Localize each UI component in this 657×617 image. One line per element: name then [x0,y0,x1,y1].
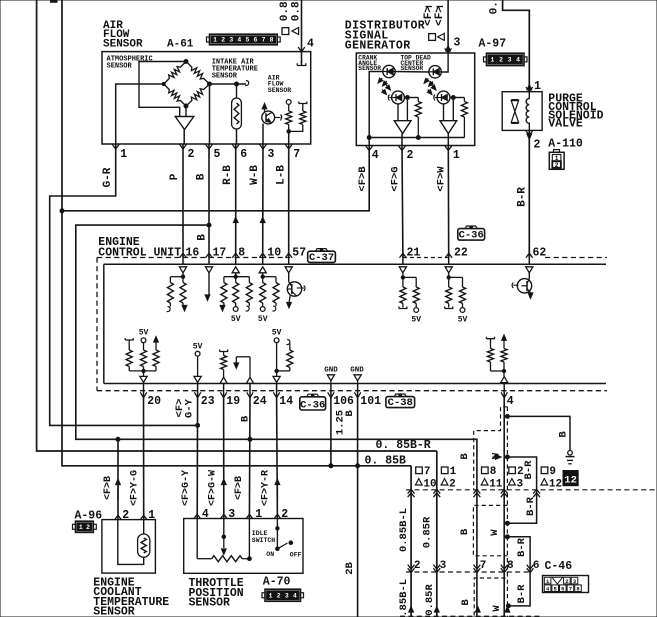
connector badge C-38 [386,397,415,408]
row 2 connector dashed line [406,571,532,573]
svg-text:<F>B: <F>B [103,476,114,500]
pin mark A-61 pin 2 [180,144,187,149]
wire crank amp output pin 2 [401,134,403,146]
wire bridge top to amplifier input [139,62,186,117]
connector A-110 [549,152,564,169]
pin mark ECU pin 16 [180,253,187,258]
svg-text:6: 6 [240,148,247,161]
svg-text:22: 22 [454,247,468,260]
svg-text:SENSOR: SENSOR [107,63,133,71]
node TDC output [451,96,455,100]
engine control unit solid boundary [104,263,606,265]
wire TPS pin 1 [248,519,250,559]
svg-text:4: 4 [307,38,314,51]
wire B branch to body ground [507,416,570,450]
svg-text:3: 3 [440,560,447,572]
engine control unit dashed boundary [97,257,290,259]
wire W-B pin3 to ECU 10 [262,144,264,258]
resistor network pin 4 [487,337,495,339]
svg-text:5V: 5V [458,316,468,325]
svg-text:A-70: A-70 [263,576,291,589]
wire left bus 2 (0.85B ground bus) [62,0,411,466]
wire TDC output to amplifier [452,98,454,121]
wire R-B pin6 to ECU 8 [235,144,237,258]
svg-text:5V: 5V [139,329,149,338]
wire distributor pin 3 from top [447,0,449,53]
svg-text:ON: ON [266,551,274,558]
pin mark coolant pin 2 [115,515,122,520]
node junction G-R joins (F)G-Y wire [196,423,200,427]
wire (F)Y-R pin14 to TPS pin 2 [276,398,279,519]
pin mark ECU pin 17 [206,253,213,258]
svg-text:<F>G-W: <F>G-W [208,470,219,506]
pin mark coolant pin 1 [140,515,147,520]
distributor signal generator box [356,53,474,146]
svg-text:106: 106 [333,395,354,408]
pin mark A-61 pin 3 [260,144,267,149]
wire B pin5 to ECU 17 [208,144,210,258]
arrowhead pin 20 out [143,371,145,376]
svg-text:<F>: <F> [434,6,446,26]
pin mark ECU pin 106 [330,384,332,398]
arrow on R-B wire [233,217,238,223]
op-amp atmospheric sensor amplifier [175,117,194,130]
pin mark joint row1 wire 7/10 [408,489,415,493]
wire pin 24 link [234,363,239,369]
svg-text:2: 2 [534,139,541,152]
wire TDC amp output pin 1 [447,134,449,146]
switch idle switch [276,519,278,549]
node bridge right [208,82,212,86]
svg-text:<F>B: <F>B [357,166,369,192]
pin mark distributor pin 3 [446,46,451,52]
pin mark joint row3 [409,607,414,613]
svg-text:<F>Y-G: <F>Y-G [130,470,141,506]
svg-text:0. 85B-R: 0. 85B-R [376,439,431,452]
arrowhead pin 8 [232,267,239,273]
transistor air flow sensor phototransistor [262,103,267,109]
pin mark ECU pin 4 [503,384,505,398]
pin mark joint row3 [505,607,510,613]
svg-text:3: 3 [229,37,233,44]
svg-text:B-R: B-R [523,460,535,480]
svg-text:4: 4 [293,592,297,599]
thermistor intake air temperature sensor [236,84,238,98]
potentiometer TPS [196,519,198,559]
svg-text:2: 2 [565,578,568,585]
svg-text:B: B [459,528,471,535]
arrowhead pin 62 [526,267,533,273]
svg-text:VALVE: VALVE [548,118,583,131]
svg-text:8: 8 [507,560,514,572]
arrow into W wire [495,455,501,460]
arrow on (F)G-W wire [221,479,226,485]
arrowhead into pin 16 [179,267,186,273]
pin mark ECU pin 8 [232,253,239,258]
row 3 connector dashed line [400,615,540,617]
wire W pin 4 down [503,398,505,617]
svg-text:4: 4 [507,395,514,408]
pin mark joint row3 [434,607,439,613]
pin mark A-61 pin 4 [298,47,305,52]
resistor network pin 16 [170,276,183,278]
svg-text:B: B [557,431,569,438]
svg-text:2: 2 [555,162,559,169]
svg-text:B: B [197,234,209,241]
row 1 connector dashed line [406,489,657,491]
joint connector dashed bus [506,407,508,617]
dashed link pins 21-22 [403,257,449,259]
arrowhead pin 4 out [503,371,505,377]
svg-text:2: 2 [277,592,281,599]
svg-text:2: 2 [414,560,421,572]
resistor network pin 8 [224,276,249,278]
connector C-46 pinout [543,576,589,593]
node bus to ground branch [505,414,509,418]
pin mark ECU pin 14 [276,384,278,398]
resistor network pin 10 [263,276,276,278]
label square 8 triangle 11 [482,467,489,474]
svg-text:17: 17 [213,247,227,260]
svg-text:3: 3 [285,592,289,599]
svg-text:0.85: 0.85 [279,0,291,21]
svg-text:8: 8 [270,37,274,44]
pin mark A-61 pin 7 [285,144,292,149]
marker 12 black box [563,471,578,486]
svg-text:A-96: A-96 [75,509,103,522]
wire (F)G pin2 to ECU 21 [401,146,404,258]
svg-text:5: 5 [245,37,249,44]
label square 1 triangle 2 [441,467,448,474]
connector badge C-36 upper [458,229,485,241]
resistor TDC pull-up [463,98,465,102]
svg-text:7: 7 [424,466,431,478]
svg-text:2: 2 [122,509,129,522]
svg-text:3: 3 [228,508,235,521]
svg-text:23: 23 [201,395,215,408]
svg-text:2: 2 [517,466,524,478]
connector A-61 [207,37,210,42]
wire pin 17 stub [208,273,210,295]
node pin21 junction [401,276,404,279]
svg-text:6: 6 [533,560,540,572]
svg-text:2: 2 [86,524,90,531]
node ground bus at pin 4 [367,136,371,140]
svg-text:W: W [491,605,503,612]
wire B-R purge to ECU 62 [528,130,530,257]
arrowhead pin 22 [445,267,452,273]
pin mark distributor pin 2 [399,146,406,151]
svg-text:7: 7 [262,37,266,44]
svg-text:101: 101 [360,395,381,408]
svg-text:C-38: C-38 [388,397,413,409]
svg-text:2: 2 [281,508,288,521]
svg-text:W: W [489,529,501,536]
pin mark A-61 pin 6 [232,144,239,149]
pin mark TPS pin 2 [274,514,281,519]
svg-text:B: B [344,410,356,417]
pin mark joint row2 pin 8 [501,568,508,572]
svg-text:11: 11 [489,478,503,490]
resistor network pin 21 [403,276,416,278]
arrowhead into pin 17 [205,267,212,273]
ground body ground symbol [568,451,573,456]
air flow sensor box A-61 [102,52,311,144]
wire crank output to amplifier [406,98,408,121]
pin mark ECU pin 20 [143,384,145,398]
svg-text:12: 12 [564,475,577,487]
pin mark joint row2 pin 2 [408,568,415,572]
pin mark ECU pin 24 [249,384,251,398]
node bridge left [162,82,165,85]
wire bridge bottom to amplifier input [185,106,187,117]
svg-text:SENSOR: SENSOR [93,606,135,617]
transistor pin 57 input [287,282,301,296]
node pin16 junction [181,275,184,278]
pin mark purge pin 1 [527,84,532,90]
symbol square and triangle pin 3 [429,34,436,41]
svg-text:C-36: C-36 [459,230,484,242]
svg-text:7: 7 [293,148,300,161]
svg-text:SENSOR: SENSOR [268,87,292,94]
svg-text:G-Y: G-Y [184,398,196,418]
svg-text:GENERATOR: GENERATOR [345,40,411,53]
svg-text:5V: 5V [258,315,268,324]
wire (F)B to coolant sensor pin 2 [117,439,119,519]
svg-text:1: 1 [490,57,494,64]
arrow on W-B wire [260,217,265,223]
svg-text:0.85R: 0.85R [422,516,434,548]
svg-text:2: 2 [407,149,414,162]
node bus to B-R branch [505,455,509,459]
pin mark TPS pin 3 [220,514,227,519]
resistor network pin 14 [276,343,278,371]
wire P pin2 to ECU 16 [182,144,184,258]
svg-text:0.8: 0.8 [488,0,500,14]
pin mark joint row1 wire 9/12 [533,489,540,493]
wire L-B pin7 to ECU 57 [288,144,290,258]
svg-text:B-R: B-R [516,584,528,604]
symbol square and triangle pin 4 [282,28,289,35]
node pin14 junction [275,369,278,372]
svg-text:1: 1 [453,149,460,162]
pin mark ECU pin 19 [223,384,225,398]
svg-text:SENSOR: SENSOR [103,38,143,50]
node junction B bus to coolant sensor [116,437,120,441]
svg-text:16: 16 [186,247,200,260]
wire B bus from ECU pin 17 wire [76,225,477,617]
svg-text:3: 3 [508,57,512,64]
svg-text:24: 24 [253,395,267,408]
resistor network pin 22 [449,276,463,278]
wire amplifier output to pin 2 [183,130,185,145]
svg-text:2: 2 [221,37,225,44]
svg-text:B: B [459,453,471,460]
wire ground bus to distributor pin 4 [62,146,369,211]
wire bridge right node to pin 5 [209,84,211,144]
pin mark ECU pin 57 [285,253,292,258]
resistor crank pull-up [417,98,419,102]
wire stub cut at top edge [51,0,58,2]
pin mark distributor pin 1 [445,146,452,151]
svg-text:CONTROL UNIT: CONTROL UNIT [98,246,181,259]
svg-text:57: 57 [292,247,306,260]
resistor pin 19 [220,350,228,352]
svg-text:A-97: A-97 [479,37,507,50]
svg-text:0.85: 0.85 [290,0,302,21]
wire bridge left node to pin 1 [116,84,164,144]
svg-text:4: 4 [372,149,379,162]
wire B-R branch upper [507,457,536,523]
connector A-97 [484,57,487,62]
svg-text:19: 19 [226,395,240,408]
node bridge top [184,60,188,64]
node pin22 junction [447,276,450,279]
wire purge feed from top [503,0,530,92]
svg-text:G-R: G-R [102,167,114,187]
svg-text:5V: 5V [193,342,203,351]
svg-text:GND: GND [324,366,338,374]
svg-text:<F>B: <F>B [234,476,245,500]
pin mark ECU pin 62 [526,253,533,258]
transistor pin 62 [517,279,531,293]
opto sensor top dead center (LED + phototransistor) [429,66,441,78]
arrowhead pin 14 out [276,371,278,376]
label square 9 triangle 12 [541,467,548,474]
svg-text:SWITCH: SWITCH [252,537,276,544]
svg-text:W: W [490,452,502,459]
wire 2B pin 101 down [357,398,359,617]
arrow on (F)B wire [116,479,121,485]
pin mark ECU pin 21 [400,253,407,258]
svg-text:5V: 5V [231,315,241,324]
svg-text:W-B: W-B [249,165,261,185]
wire distributor internal ground bus [369,137,464,139]
opto sensor crank angle (LED + phototransistor) [383,65,395,77]
svg-text:8: 8 [238,247,245,260]
engine coolant temperature sensor box [102,520,155,574]
purge control solenoid valve box [502,92,542,131]
node B-R return lower [506,604,510,608]
node thermistor tap [235,82,239,86]
pin mark ECU pin 23 [197,384,199,398]
arrow on (F)Y-R wire [275,479,280,485]
svg-text:C-46: C-46 [545,560,573,573]
arrowhead pin 21 [399,267,406,273]
svg-text:1: 1 [148,509,155,522]
svg-text:L-B: L-B [276,165,288,185]
wire G-R from A-61 pin 1 [50,144,198,425]
svg-text:0.85R: 0.85R [424,584,436,616]
op-amp crank amplifier [394,121,411,134]
svg-text:P: P [169,173,181,180]
pin mark A-61 pin 5 [206,144,213,149]
svg-text:14: 14 [279,395,293,408]
svg-text:A-61: A-61 [167,38,194,50]
arrowhead pin 10 [259,267,266,273]
node resistor junction to pin 7 [287,130,291,134]
svg-text:SENSOR: SENSOR [189,597,231,610]
wire (F)G-Y pin23 to TPS pin 4 [196,398,198,519]
wire bridge right node to thermistor [210,83,247,85]
svg-text:9: 9 [549,466,556,478]
svg-text:<F>W: <F>W [436,166,448,192]
svg-text:6: 6 [561,586,564,593]
svg-text:SENSOR: SENSOR [212,72,238,80]
pin mark purge pin 2 [526,131,533,136]
op-amp TDC amplifier [440,121,457,134]
node pin8 junction [234,275,237,278]
svg-text:1: 1 [79,524,83,531]
pin mark joint row2 pin 6 [527,568,534,572]
pin mark A-61 pin 1 [112,144,119,149]
node junction left bus 2 to distributor ground [60,209,64,213]
svg-text:1: 1 [120,148,127,161]
wiper arm TPS [223,519,225,537]
wire TDC phototransistor collector [450,97,465,99]
wire A-61 pin 4 from top [301,0,303,66]
svg-text:R-B: R-B [222,165,234,185]
arrowhead pin 57 [285,267,292,273]
svg-text:OFF: OFF [290,552,302,559]
svg-text:5V: 5V [272,329,282,338]
joint connector dashed box below row 2 [474,578,505,617]
svg-text:10: 10 [423,478,436,490]
pin mark joint row2 pin 3 [433,568,440,572]
pin mark ECU pin 10 [259,253,266,258]
pin mark joint row3 [475,607,480,613]
wire pin3 power to TDC LED [441,53,448,72]
pin mark ECU pin 22 [445,253,452,258]
svg-text:C-37: C-37 [309,252,334,264]
svg-text:62: 62 [533,247,547,260]
svg-text:3: 3 [268,148,275,161]
node junction B bus at pin17 wire [207,223,211,227]
svg-text:0.85B-L: 0.85B-L [398,508,410,552]
svg-text:12: 12 [549,478,562,490]
thermistor coolant sensor [143,520,145,534]
wire crank LED to pin 4 leg [369,72,383,146]
pin mark joint row1 wire 8/11 [474,489,481,493]
wire 0.85B-R vertical drop [436,451,438,617]
node pin20 junction [142,369,145,372]
wire TDC LED to crank LED [395,71,429,74]
node pin101 on 0.85B bus [356,464,360,468]
svg-text:1: 1 [213,37,217,44]
wire B-R branch lower [507,537,530,606]
svg-text:5: 5 [214,148,221,161]
wire (F)B pin24 to TPS pin 1 [248,398,251,519]
svg-text:1: 1 [450,466,457,478]
svg-text:8: 8 [490,466,497,478]
node pin10 junction [261,275,264,278]
node junction B bus at TPS pin 1 wire [248,437,252,441]
node crank resistor to ground bus [416,136,420,140]
svg-text:GND: GND [350,366,364,374]
svg-text:A-110: A-110 [548,137,583,150]
label square 7 triangle 10 [416,467,423,474]
svg-text:20: 20 [147,395,161,408]
svg-text:2B: 2B [344,562,356,575]
pin mark TPS pin 4 [194,514,201,519]
resistor air flow sensor pull-up 1 [286,100,291,105]
node pin106 on 0.85B bus [329,464,333,468]
svg-text:6: 6 [253,37,257,44]
svg-text:2: 2 [188,148,195,161]
svg-text:7: 7 [569,586,572,593]
joint connector dashed box rows 1-2 [473,505,507,555]
svg-text:2: 2 [499,57,503,64]
